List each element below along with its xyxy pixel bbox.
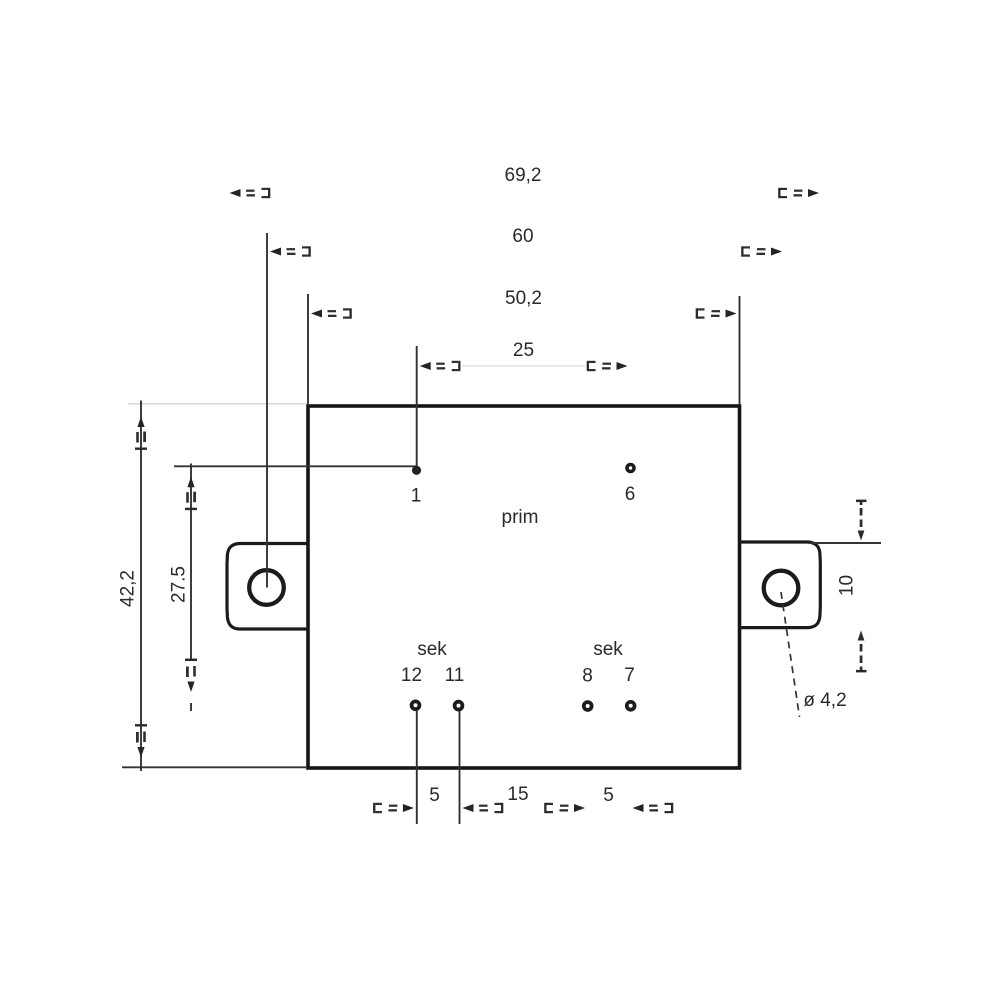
svg-text:25: 25 [513,340,534,361]
svg-text:sek: sek [417,639,447,660]
svg-text:8: 8 [582,666,593,687]
svg-text:1: 1 [411,486,422,507]
svg-text:69,2: 69,2 [505,165,542,186]
svg-text:27.5: 27.5 [169,566,190,603]
svg-text:prim: prim [502,507,539,528]
svg-text:6: 6 [625,484,636,505]
svg-text:60: 60 [512,226,533,247]
svg-text:50,2: 50,2 [505,288,542,309]
svg-text:5: 5 [603,785,614,806]
svg-text:15: 15 [507,784,528,805]
svg-text:sek: sek [593,639,623,660]
svg-text:10: 10 [837,575,858,596]
svg-text:11: 11 [445,665,465,686]
svg-text:42,2: 42,2 [118,570,139,607]
svg-text:12: 12 [401,665,422,686]
svg-text:ø 4,2: ø 4,2 [803,690,846,711]
svg-text:7: 7 [624,665,635,686]
svg-text:5: 5 [429,785,440,806]
